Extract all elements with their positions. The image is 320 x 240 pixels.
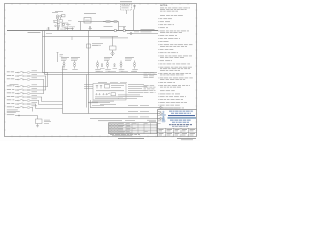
- breaker row FDR10: [7, 106, 12, 109]
- wire utility drop to bus: [126, 10, 128, 14]
- junction box J2 below bus: [110, 46, 117, 50]
- transformer XF6: [134, 61, 136, 63]
- utility source box U1 (dashed): [121, 5, 132, 11]
- table header label: [98, 119, 122, 122]
- wire ATS drop: [112, 37, 114, 47]
- labels left of ATS drop: [92, 42, 103, 45]
- title block field grid: [158, 128, 197, 136]
- breaker row FDR3: [7, 78, 10, 81]
- transformer XF1: [63, 61, 65, 63]
- sheet annotation below border left: [118, 137, 144, 140]
- aux contact circles in module: [96, 94, 97, 95]
- label generator feeder: [84, 12, 96, 15]
- breaker NC tick2: [123, 28, 125, 30]
- ground symbol: [36, 125, 39, 127]
- CT CT1: [62, 23, 64, 25]
- top margin label center: [120, 0, 132, 3]
- control label wide: [96, 89, 124, 92]
- wire main 480V bus: [7, 30, 158, 32]
- switch box on riser x88: [87, 44, 91, 48]
- wire stubs into module left: [84, 84, 93, 86]
- contacts above bus x66-77: [67, 28, 68, 29]
- wire riser pair left: [42, 31, 44, 73]
- wire aux segment below bus right: [127, 33, 158, 35]
- disconnect switch DS1: [54, 22, 60, 24]
- label on line1: [128, 104, 138, 107]
- wire gen drop to bus: [80, 22, 82, 31]
- module bottom text rows: [95, 96, 123, 99]
- breaker row FDR5: [7, 88, 11, 91]
- breaker row FDR1: [7, 71, 10, 74]
- transformer XF4: [107, 61, 109, 63]
- spare breaker row: [7, 113, 15, 116]
- surge arrester SA1: [52, 11, 58, 14]
- ground fault box GF1: [36, 119, 43, 124]
- wire bank2 collect to right: [42, 101, 63, 103]
- CT pair symbols: [96, 85, 98, 89]
- wide label rows right lower: [110, 92, 112, 95]
- inline breaker square 2 on bus: [123, 30, 125, 32]
- breaker row FDR9: [7, 102, 11, 105]
- wire generator horizontal: [78, 21, 119, 23]
- label above table right: [147, 119, 156, 122]
- small fuse group A: [101, 64, 102, 65]
- transformer XF3: [97, 61, 99, 63]
- label on line2: [128, 110, 138, 113]
- border tick marks: [4, 3, 197, 137]
- labels right of module box: [128, 83, 144, 86]
- wire feeder line below bus: [43, 36, 119, 38]
- wire control line 2: [63, 113, 161, 115]
- sheet annotation below border right: [177, 137, 196, 140]
- title block outline: [158, 109, 197, 111]
- breaker row FDR4: [7, 85, 12, 88]
- drawing border frame: [5, 4, 197, 137]
- transfer switch diamond: [111, 52, 115, 56]
- parts list table: [109, 123, 158, 134]
- wire T1 drop: [57, 19, 59, 30]
- wire control line 1: [90, 107, 160, 109]
- relay box R1: [105, 85, 110, 89]
- contact symbol above bus mid: [58, 28, 60, 30]
- wire bank2 staircase verticals: [41, 97, 43, 102]
- inline breaker square 1 on bus: [114, 30, 116, 32]
- small fuse group B: [114, 64, 115, 65]
- wire collector pair horizontal: [43, 72, 158, 74]
- fuse F1: [62, 15, 66, 17]
- wire collector drop right: [86, 75, 88, 108]
- wire riser x88: [88, 31, 90, 114]
- label inside module: [111, 84, 124, 87]
- breaker row FDR7: [7, 95, 10, 98]
- label bus right end: [141, 28, 155, 31]
- label below bus near risers: [46, 32, 52, 35]
- label bus name: [28, 31, 41, 34]
- company logo (blue figure): [161, 111, 166, 123]
- labels near GF1: [44, 119, 50, 122]
- wire control line 3: [90, 118, 160, 120]
- fuse F2 inline: [103, 21, 105, 23]
- drawing title text: [169, 123, 171, 126]
- text under table: [110, 133, 114, 136]
- breaker CB-M tick: [89, 28, 91, 31]
- generator breaker CB-G: [84, 18, 91, 24]
- wire riser x62 to lower line: [62, 66, 64, 114]
- title block field text: [159, 128, 164, 131]
- label row above distribution units: [61, 56, 69, 59]
- cable bracket symbol left: [57, 53, 59, 63]
- svg-text:NOTES:: NOTES:: [160, 5, 168, 7]
- breaker row FDR8: [7, 99, 12, 102]
- connector J1: [113, 21, 117, 23]
- notes item number ticks: [158, 17, 159, 20]
- tap tick on feeder: [71, 37, 73, 41]
- contact symbol above bus left: [48, 28, 50, 30]
- wire module drop: [90, 100, 92, 108]
- company name text block (blue): [169, 110, 172, 113]
- labels above bus mid: [89, 27, 93, 30]
- transformer XF5: [120, 61, 122, 63]
- breaker row FDR6: [7, 92, 11, 95]
- pole symbol PT1: [134, 5, 136, 10]
- title block header line above: [160, 107, 180, 110]
- label above module box: [98, 81, 107, 84]
- destination labels right margin upper: [144, 71, 149, 74]
- table cell text: [109, 122, 111, 125]
- text block under cluster: [92, 100, 114, 103]
- breaker row FDR2: [7, 74, 11, 77]
- destination labels right margin lower: [144, 84, 149, 87]
- meter socket symbols cluster: [55, 25, 57, 27]
- label above utility box: [122, 2, 130, 5]
- labels above collector: [96, 70, 103, 73]
- terminal strip symbols below module: [88, 102, 98, 104]
- label service entrance: [66, 27, 74, 30]
- label on feeder line: [100, 37, 128, 40]
- wire bank1 staircase verticals: [47, 73, 49, 87]
- labels above line3: [128, 116, 138, 119]
- utility transformer T1: [55, 10, 63, 13]
- transformer XF2: [74, 61, 76, 63]
- label above left bank2: [10, 83, 19, 86]
- wire below ATS box: [112, 50, 114, 56]
- wire entrance drop 2: [64, 27, 66, 30]
- relay module box M1: [93, 84, 126, 101]
- notes paragraph top: [160, 7, 164, 10]
- meter M1 on aux segment: [130, 33, 132, 35]
- title block left margin marks: [158, 114, 162, 116]
- note block left lower: [7, 109, 18, 112]
